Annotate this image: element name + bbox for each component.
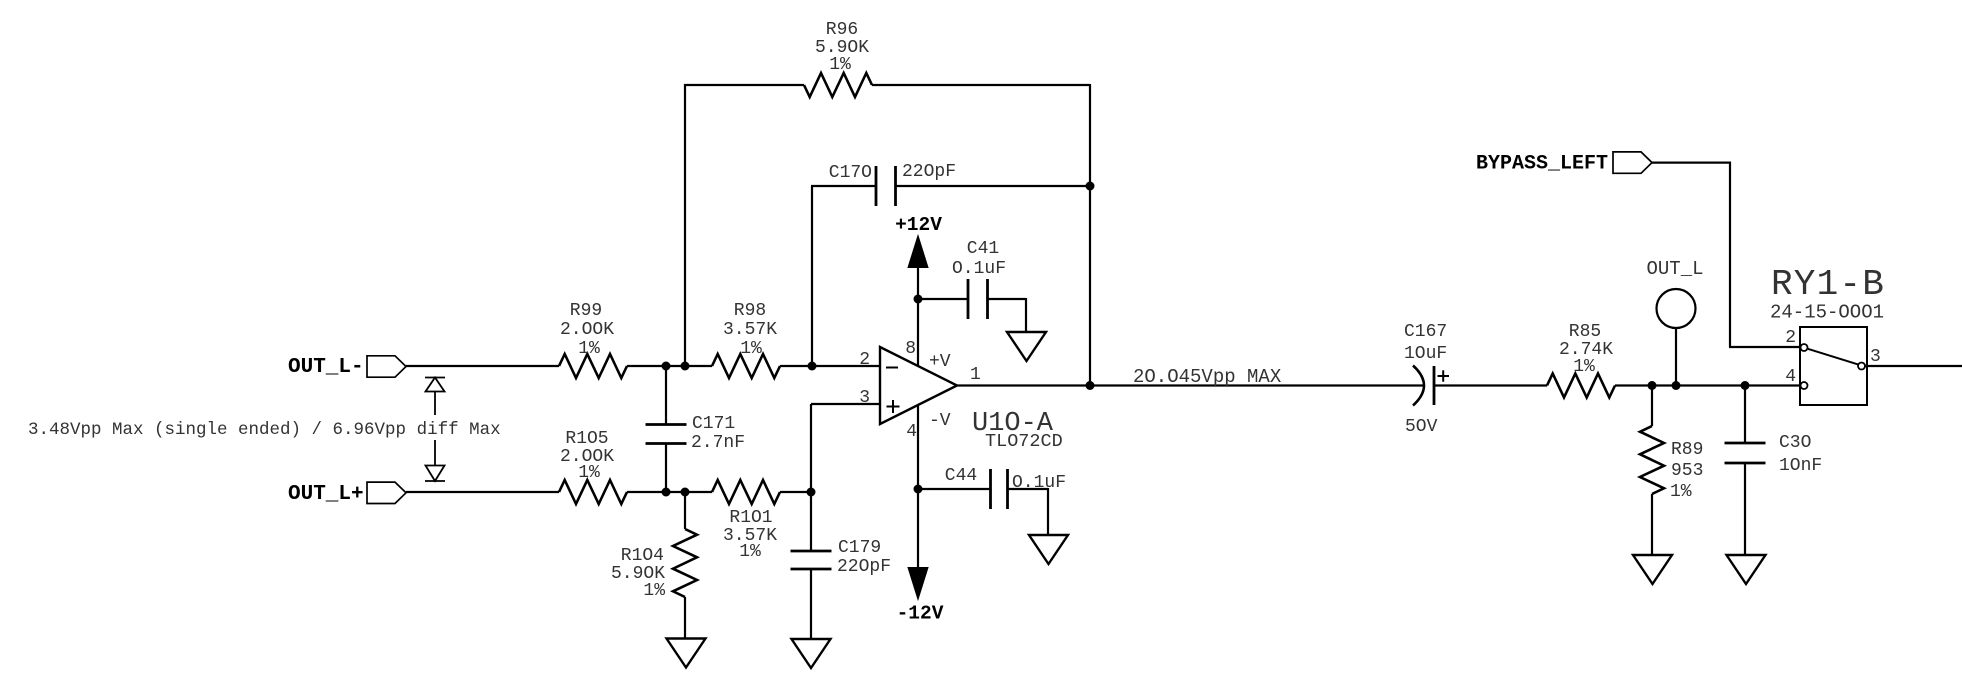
wire BYPASS_LEFT to relay pin 2 xyxy=(1652,162,1801,348)
svg-text:R98: R98 xyxy=(734,301,766,321)
capacitor C41 xyxy=(952,239,1006,319)
svg-text:+12V: +12V xyxy=(895,214,942,236)
wire OUT_L- to R99 xyxy=(406,365,559,367)
capacitor C170 xyxy=(829,162,956,206)
wire OUT_L+ to R105 xyxy=(406,491,559,493)
net label BYPASS_LEFT xyxy=(1476,153,1608,176)
resistor R96 xyxy=(804,20,872,97)
svg-text:C41: C41 xyxy=(967,239,999,259)
wire node C down to C179 xyxy=(810,404,812,551)
svg-text:22OpF: 22OpF xyxy=(902,162,956,182)
capacitor C171 xyxy=(646,414,746,492)
svg-text:24-15-OOO1: 24-15-OOO1 xyxy=(1770,302,1884,324)
junction OUT_L tap xyxy=(1672,381,1681,390)
wire C41 to ground xyxy=(988,298,1027,332)
svg-text:2: 2 xyxy=(859,350,870,370)
svg-text:R1O4: R1O4 xyxy=(621,546,664,566)
svg-text:1%: 1% xyxy=(643,581,665,601)
ground under C30 xyxy=(1727,555,1766,584)
ground under C179 xyxy=(792,639,831,668)
port connector OUT_L+ xyxy=(367,482,406,503)
svg-text:C3O: C3O xyxy=(1779,433,1811,453)
junction R89 tap xyxy=(1648,381,1657,390)
wire U10 pin4 to -12V xyxy=(917,405,919,571)
svg-text:953: 953 xyxy=(1671,461,1703,481)
junction C44 tap xyxy=(914,485,923,494)
dimension arrow between OUT_L- and OUT_L+ xyxy=(425,378,445,482)
svg-text:-V: -V xyxy=(929,411,951,431)
wire node to C30 xyxy=(1744,386,1746,444)
wire C167 to R85 xyxy=(1434,384,1547,386)
svg-text:OUT_L+: OUT_L+ xyxy=(288,483,364,506)
resistor R105 xyxy=(559,429,627,504)
junction node B2 (R104 tap) xyxy=(681,488,690,497)
capacitor C44 xyxy=(945,466,1066,509)
junction feedback to output xyxy=(1086,381,1095,390)
wire R85 to relay pin 4 xyxy=(1615,384,1801,386)
wire R99 to node A xyxy=(627,365,712,367)
wire R101 to node C xyxy=(780,491,811,493)
wire C30 to ground xyxy=(1744,463,1746,555)
wire pin2 net up to C170 xyxy=(811,186,876,366)
resistor R101 xyxy=(712,480,780,562)
feedback wire right xyxy=(872,84,1090,386)
svg-text:R1O5: R1O5 xyxy=(565,429,608,449)
svg-text:5OV: 5OV xyxy=(1405,417,1438,437)
svg-text:22OpF: 22OpF xyxy=(837,557,891,577)
svg-text:C167: C167 xyxy=(1404,322,1447,342)
wire node C to U10 pin 3 xyxy=(811,403,880,405)
junction C41 tap xyxy=(914,295,923,304)
svg-text:1: 1 xyxy=(970,365,981,385)
svg-text:8: 8 xyxy=(905,339,916,359)
resistor R98 xyxy=(712,301,780,378)
wire OUT_L stub xyxy=(1675,328,1677,386)
ground under C44 xyxy=(1029,535,1068,564)
wire C170 to feedback node xyxy=(896,185,1091,187)
svg-text:R99: R99 xyxy=(570,301,602,321)
ground under R104 xyxy=(667,639,706,668)
wire relay pin 3 out xyxy=(1865,365,1962,367)
svg-text:R85: R85 xyxy=(1569,322,1601,342)
svg-text:3: 3 xyxy=(1870,347,1881,367)
capacitor C30 xyxy=(1725,433,1823,476)
resistor R89 xyxy=(1640,426,1703,502)
wire node to R89 xyxy=(1651,386,1653,427)
svg-text:3.48Vpp Max (single ended) / 6: 3.48Vpp Max (single ended) / 6.96Vpp dif… xyxy=(28,420,501,440)
op-amp U10-A xyxy=(859,339,1063,452)
wire node A to C171 xyxy=(665,366,667,425)
svg-text:1%: 1% xyxy=(1573,357,1595,377)
svg-text:R1O1: R1O1 xyxy=(729,508,772,528)
svg-text:R96: R96 xyxy=(826,20,858,40)
net annotation 20.045Vpp MAX xyxy=(1133,366,1282,388)
net label OUT_L- xyxy=(288,356,364,379)
junction node A2 (feedback tap) xyxy=(681,362,690,371)
svg-text:1%: 1% xyxy=(578,339,600,359)
svg-text:RY1-B: RY1-B xyxy=(1771,264,1885,305)
port connector BYPASS_LEFT xyxy=(1613,152,1652,173)
capacitor C179 xyxy=(791,538,892,577)
wire node B2 to R104 xyxy=(684,492,686,529)
wire R89 to ground xyxy=(1651,494,1653,555)
svg-text:C44: C44 xyxy=(945,466,977,486)
svg-text:2.7nF: 2.7nF xyxy=(691,433,745,453)
svg-text:+V: +V xyxy=(929,352,951,372)
junction C30 tap xyxy=(1741,381,1750,390)
svg-text:O.1uF: O.1uF xyxy=(952,259,1006,279)
svg-text:-12V: -12V xyxy=(897,603,944,625)
wire -V node to C44 xyxy=(918,488,991,490)
svg-text:1%: 1% xyxy=(740,339,762,359)
wire R105 to node B xyxy=(627,491,712,493)
resistor R99 xyxy=(559,301,627,378)
svg-text:3: 3 xyxy=(859,388,870,408)
svg-text:TLO72CD: TLO72CD xyxy=(985,431,1063,452)
wire +V node to C41 xyxy=(918,298,968,300)
ground under R89 xyxy=(1633,555,1672,584)
svg-text:4: 4 xyxy=(1785,367,1796,387)
wire C44 to ground xyxy=(1008,488,1049,535)
resistor R85 xyxy=(1547,322,1615,398)
svg-text:C17O: C17O xyxy=(829,163,872,183)
port connector OUT_L- xyxy=(367,356,406,377)
junction node C xyxy=(807,488,816,497)
svg-text:3.57K: 3.57K xyxy=(723,320,777,340)
relay RY1-B xyxy=(1770,264,1885,405)
power -12V xyxy=(897,568,944,625)
svg-text:OUT_L: OUT_L xyxy=(1646,258,1703,280)
svg-text:R89: R89 xyxy=(1671,440,1703,460)
junction node B (C171 bottom) xyxy=(662,488,671,497)
wire R98 to U10 pin 2 xyxy=(780,365,880,367)
wire R104 to ground xyxy=(684,597,686,639)
feedback wire left vertical xyxy=(684,84,804,366)
wire C179 to ground xyxy=(810,569,812,639)
ground under C41 xyxy=(1007,332,1046,361)
svg-text:C171: C171 xyxy=(692,414,735,434)
net label OUT_L+ xyxy=(288,483,364,506)
svg-text:2: 2 xyxy=(1785,328,1796,348)
resistor R104 xyxy=(611,529,697,601)
svg-text:BYPASS_LEFT: BYPASS_LEFT xyxy=(1476,153,1608,176)
svg-text:1%: 1% xyxy=(829,55,851,75)
node OUT_L xyxy=(1646,258,1703,328)
svg-text:1%: 1% xyxy=(739,542,761,562)
svg-text:1%: 1% xyxy=(578,463,600,483)
capacitor C167 (polarized) xyxy=(1404,322,1449,437)
svg-text:1%: 1% xyxy=(1670,482,1692,502)
wire U10 pin8 to +12V xyxy=(917,268,919,366)
svg-text:OUT_L-: OUT_L- xyxy=(288,356,364,379)
wire U10 output xyxy=(957,384,1423,386)
svg-text:4: 4 xyxy=(906,422,917,442)
svg-text:2.OOK: 2.OOK xyxy=(560,320,614,340)
note 3.48Vpp Max xyxy=(28,420,501,440)
svg-text:1OnF: 1OnF xyxy=(1779,456,1822,476)
power +12V xyxy=(895,214,942,268)
svg-text:1OuF: 1OuF xyxy=(1404,344,1447,364)
svg-text:C179: C179 xyxy=(838,538,881,558)
junction node A (C171 tap) xyxy=(662,362,671,371)
junction C170 branch on pin2 net xyxy=(808,362,817,371)
svg-text:2O.O45Vpp MAX: 2O.O45Vpp MAX xyxy=(1133,366,1282,388)
junction C170 right xyxy=(1086,182,1095,191)
